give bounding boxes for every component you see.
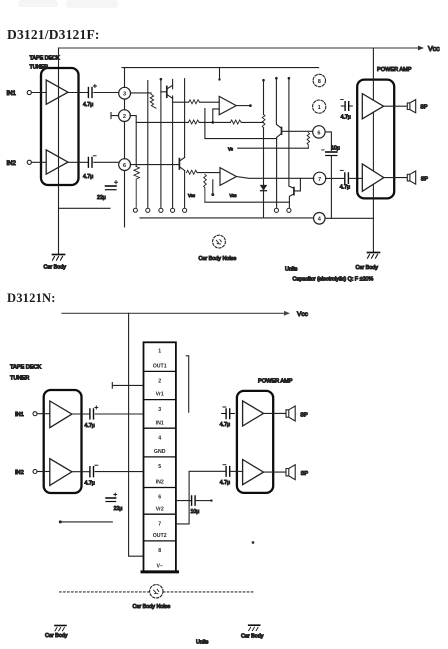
internal vertical rail 6 with transistor Q4 <box>288 77 291 80</box>
svg-text:V–: V– <box>157 564 163 570</box>
capacitor 4.7u out2 <box>340 170 348 183</box>
svg-text:IN2: IN2 <box>7 161 17 167</box>
power amp B3 <box>243 401 264 426</box>
internal bottom rail <box>140 217 313 219</box>
pin 3 <box>119 87 131 99</box>
wire A1 output <box>68 92 87 94</box>
Vcc rail (bottom schematic) <box>62 312 285 314</box>
wire A2 output <box>68 161 87 163</box>
svg-text:Car Body Noise: Car Body Noise <box>133 604 171 610</box>
wire A3 output <box>384 105 407 107</box>
speaker SP3 <box>286 406 295 421</box>
svg-text:Car Body: Car Body <box>356 265 379 271</box>
wire cap pa2 to amp <box>231 470 243 472</box>
wire pin7 to coupling cap <box>326 177 344 179</box>
Vcc arrow bottom <box>284 311 290 316</box>
svg-text:POWER AMP: POWER AMP <box>377 67 412 73</box>
svg-text:TAPE DECK: TAPE DECK <box>10 365 42 371</box>
wire pin4 to ground node <box>325 217 373 219</box>
svg-text:4: 4 <box>158 435 161 441</box>
power amp block bottom <box>237 391 273 493</box>
resistor R2 <box>189 100 200 104</box>
op-amp U1a <box>219 96 236 114</box>
wire IN1 <box>31 92 46 94</box>
svg-text:10μ: 10μ <box>331 146 340 152</box>
internal vertical rail 5 with transistor Q3 <box>275 77 278 80</box>
wire 10u to ground line <box>330 156 332 219</box>
terminal circle 4 <box>183 208 187 212</box>
svg-text:4.7μ: 4.7μ <box>85 481 95 487</box>
svg-text:SP: SP <box>301 471 309 477</box>
bias node line <box>238 147 308 149</box>
tape deck block <box>41 68 79 185</box>
capacitor 4.7u b2 <box>90 465 98 477</box>
wire Vr1 stub <box>112 383 143 389</box>
wire cap to pin3 <box>94 92 119 94</box>
svg-text:OUT2: OUT2 <box>153 533 167 539</box>
svg-text:4.7μ: 4.7μ <box>340 184 350 190</box>
terminal circle 6 <box>287 208 291 212</box>
resistor R7 vertical <box>262 115 265 128</box>
resistor R4 <box>230 120 241 124</box>
wire Q4 collector to output <box>294 178 300 191</box>
wire 10u stub <box>196 500 210 502</box>
wire cap to IC IN2 <box>95 471 143 473</box>
svg-text:GND: GND <box>154 449 166 455</box>
diode D1 <box>261 185 267 190</box>
capacitor 4.7u b1 <box>90 406 98 419</box>
resistor R6 vertical <box>204 175 207 203</box>
faint scanner smudge top-left <box>18 0 118 8</box>
feedback wire U1a <box>205 109 277 139</box>
ground car body (left) <box>53 255 65 261</box>
svg-text:Units: Units <box>285 267 298 273</box>
stub on top bus <box>219 68 221 79</box>
svg-text:5: 5 <box>158 464 161 470</box>
svg-text:Vss: Vss <box>188 193 195 198</box>
capacitor 4.7u ch1 <box>88 84 96 97</box>
wire inverting input U1b <box>212 180 214 194</box>
wire pin6 to ripple cap <box>325 132 331 150</box>
buffer amp A2 <box>46 150 68 174</box>
vertical branch with resistor and diode <box>262 79 265 82</box>
svg-text:22μ: 22μ <box>114 506 123 512</box>
svg-text:TUNER: TUNER <box>10 376 29 382</box>
svg-text:Capacitor (electrolytic) Q: F: Capacitor (electrolytic) Q: F ±20% <box>293 276 374 282</box>
wire pin2 bias line <box>59 207 111 209</box>
ground car body bottom-left <box>55 626 66 631</box>
wire B2 out <box>72 471 89 473</box>
wire to opamp1 <box>173 101 189 103</box>
pin 6 <box>119 159 131 171</box>
svg-text:10μ: 10μ <box>191 509 200 515</box>
svg-text:IN2: IN2 <box>156 480 164 486</box>
IC block D3121N <box>144 342 176 572</box>
internal vertical rail 2 <box>160 78 163 81</box>
svg-text:4.7μ: 4.7μ <box>220 422 230 428</box>
wire Vcc drop to pin8 <box>129 313 144 556</box>
tape deck block bottom <box>44 390 82 493</box>
bias line with resistors <box>136 121 188 123</box>
Vcc rail (top) <box>59 47 420 49</box>
capacitor 4.7u pa1 (floating) <box>222 407 235 419</box>
svg-text:2: 2 <box>158 379 161 385</box>
wire cap to pin6 <box>94 161 119 163</box>
svg-text:Car Body Noise: Car Body Noise <box>199 256 237 262</box>
resistor R8 vertical to bias line <box>307 133 310 149</box>
internal vertical rail 1 <box>147 81 149 208</box>
pin 8 (NC) <box>313 74 325 86</box>
svg-text:4.7μ: 4.7μ <box>83 174 93 180</box>
wire pin2 stub left <box>111 113 119 119</box>
pin 7 out <box>313 172 325 184</box>
wire IN2 bottom <box>37 471 50 473</box>
ground car body bottom-right <box>249 625 260 630</box>
svg-text:D3121N:: D3121N: <box>7 291 56 305</box>
internal vertical rail 3 <box>172 79 174 207</box>
svg-text:SP: SP <box>421 176 429 182</box>
svg-text:4.7μ: 4.7μ <box>83 102 93 108</box>
wire cap to power amp <box>350 177 363 179</box>
pin 6 out <box>313 126 325 138</box>
car body noise symbol bottom <box>150 585 163 598</box>
svg-text:Units: Units <box>196 640 209 646</box>
transistor Q2 <box>178 159 180 169</box>
internal vertical rail 4 <box>184 79 186 208</box>
svg-text:1: 1 <box>158 349 161 355</box>
stray node below power amp <box>252 541 255 544</box>
wire B3 out <box>264 412 286 414</box>
resistor below pin2 branch <box>134 167 140 208</box>
minus mark <box>322 149 325 151</box>
wire Vr2 to 10u <box>176 500 191 502</box>
buffer amp A1 <box>46 80 68 104</box>
svg-text:6: 6 <box>123 163 126 169</box>
svg-text:POWER AMP: POWER AMP <box>258 378 293 384</box>
svg-text:3: 3 <box>158 407 161 413</box>
capacitor 10u <box>326 152 337 156</box>
node junction <box>211 121 214 124</box>
svg-text:IN1: IN1 <box>7 91 17 97</box>
internal top bus <box>122 67 319 69</box>
svg-text:6: 6 <box>317 130 320 136</box>
wire U1a output <box>236 105 249 107</box>
car body noise symbol <box>213 235 226 248</box>
wire B1 out <box>72 413 89 415</box>
svg-text:Vr2: Vr2 <box>156 506 164 512</box>
svg-text:8: 8 <box>158 548 161 554</box>
capacitor 4.7u ch2 <box>88 156 96 167</box>
terminal circle 2 <box>159 208 163 212</box>
power amp B4 <box>243 460 264 485</box>
svg-text:2: 2 <box>123 114 126 120</box>
power amp block <box>357 80 394 199</box>
svg-text:4.7μ: 4.7μ <box>220 480 230 486</box>
resistor R5 <box>187 170 198 174</box>
svg-text:4.7μ: 4.7μ <box>85 423 95 429</box>
svg-text:1: 1 <box>318 105 321 111</box>
svg-text:Vcc: Vcc <box>428 46 440 53</box>
svg-text:IN1: IN1 <box>15 412 24 418</box>
wire cap to IC IN1 <box>95 413 143 415</box>
bias line bottom <box>59 520 62 523</box>
dashed ground noise line <box>60 591 254 593</box>
svg-text:3: 3 <box>123 92 126 98</box>
terminal circle 5 <box>274 208 278 212</box>
svg-text:22μ: 22μ <box>97 195 106 201</box>
svg-text:SP: SP <box>420 105 428 111</box>
capacitor 10u bottom <box>192 496 196 505</box>
svg-text:4: 4 <box>318 217 322 223</box>
svg-text:OUT1: OUT1 <box>153 363 167 369</box>
pin 4 <box>314 213 326 225</box>
buffer amp B2 <box>50 459 72 486</box>
svg-text:IN2: IN2 <box>15 470 24 476</box>
capacitor 4.7u out1 <box>341 100 353 111</box>
terminal circle 3 <box>171 208 175 212</box>
svg-text:4.7μ: 4.7μ <box>341 115 351 121</box>
pin 2 <box>119 110 131 122</box>
capacitor 4.7u pa2 <box>223 465 230 477</box>
power amp A3 <box>362 94 383 119</box>
input terminal IN2 bottom <box>33 470 37 474</box>
wire inverting input U1a <box>213 109 219 123</box>
svg-text:Vcc: Vcc <box>297 311 309 318</box>
wire A4 output <box>384 177 407 179</box>
svg-text:8: 8 <box>318 79 321 85</box>
wire pin3 into circuit <box>131 92 152 94</box>
svg-text:TUNER: TUNER <box>30 65 49 71</box>
svg-text:7: 7 <box>158 521 161 527</box>
wire U1b output to pin7 <box>236 177 313 179</box>
Vcc arrow <box>418 46 424 51</box>
svg-text:7: 7 <box>318 177 321 183</box>
svg-text:SP: SP <box>300 413 308 419</box>
resistor R3 <box>188 120 199 124</box>
wire IN1 bottom <box>37 413 50 415</box>
resistor diagonal R1 <box>150 94 156 108</box>
wire IN2 <box>31 161 46 163</box>
wire OUT2 to power amp <box>176 471 226 524</box>
feedback wire U1b <box>205 201 289 203</box>
ground car body (right) <box>368 253 380 259</box>
svg-text:Vs: Vs <box>228 147 233 152</box>
buffer amp B1 <box>50 401 72 428</box>
wire Q3 base to pin6 <box>282 130 313 132</box>
terminal dot small <box>133 208 137 212</box>
svg-text:Vr1: Vr1 <box>156 392 164 398</box>
feedback segment right of IC <box>186 356 188 412</box>
svg-text:TAPE DECK: TAPE DECK <box>30 56 61 62</box>
svg-text:6: 6 <box>158 495 161 501</box>
wire pin2 right <box>130 116 136 167</box>
capacitor 22u bottom <box>106 493 117 502</box>
IC cell dividers <box>144 371 176 541</box>
input terminal IN2 <box>27 160 31 164</box>
capacitor 22u electrolytic <box>106 181 118 190</box>
speaker SP1 <box>407 100 415 113</box>
input terminal IN1 <box>27 90 31 94</box>
input terminal IN1 bottom <box>33 412 37 416</box>
transistor Q1 <box>166 86 168 97</box>
terminal circle 1 <box>146 208 150 212</box>
wire B4 out <box>264 471 286 473</box>
power amp A4 <box>362 164 384 191</box>
svg-text:IN1: IN1 <box>156 420 164 426</box>
speaker SP4 <box>286 465 295 480</box>
svg-text:D3121/D3121F:: D3121/D3121F: <box>7 27 100 42</box>
op-amp U1b <box>220 168 236 186</box>
wire Vcc drop to tape deck block <box>58 48 60 254</box>
wire Vcc drop to power amp <box>372 48 374 252</box>
svg-text:Car Body: Car Body <box>44 265 67 271</box>
svg-text:Car Body: Car Body <box>45 633 68 639</box>
pin 1 (NC) <box>313 100 326 113</box>
svg-text:Car Body: Car Body <box>241 634 264 640</box>
speaker SP2 <box>407 171 415 184</box>
wire pin column vertical <box>124 68 126 227</box>
svg-text:Vss: Vss <box>230 193 237 198</box>
